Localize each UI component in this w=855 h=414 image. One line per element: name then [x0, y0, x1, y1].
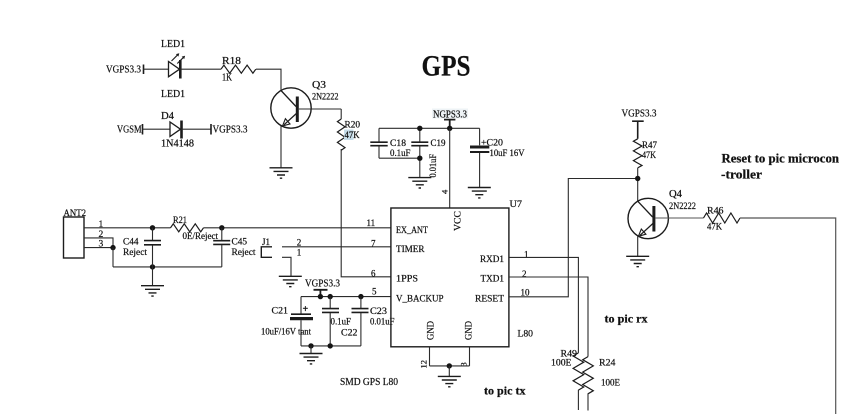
wire VGPS3.3 to LED1 anode — [144, 68, 169, 70]
capacitor C18 — [370, 142, 387, 146]
svg-text:to pic tx: to pic tx — [484, 384, 526, 398]
svg-text:C45: C45 — [232, 238, 248, 248]
junction C44 — [150, 225, 155, 230]
wire GND join — [430, 365, 470, 367]
IC U7 box — [391, 208, 509, 347]
resistor R24 — [583, 357, 594, 394]
junction dots top rail — [417, 126, 422, 131]
svg-text:11: 11 — [367, 218, 376, 228]
ground (C21 rail) — [300, 354, 323, 364]
power T-bar NGPS3.3 — [444, 120, 455, 129]
capacitor C44 — [152, 228, 154, 240]
svg-text:10uF/16V tant: 10uF/16V tant — [261, 328, 311, 338]
ground (C18/C19) — [408, 178, 431, 188]
transistor Q3 2N2222 — [271, 88, 341, 128]
wire VCC pin 4 — [449, 128, 451, 208]
svg-text:+C20: +C20 — [481, 139, 503, 149]
svg-text:C21: C21 — [272, 307, 289, 317]
wire C18-C19 bottom — [379, 157, 420, 159]
svg-text:C44: C44 — [123, 238, 139, 248]
wire R46 to right edge — [740, 218, 836, 414]
wire VGSM to D4 — [143, 128, 171, 130]
svg-text:Reject: Reject — [232, 248, 256, 258]
capacitor C19 — [411, 142, 428, 146]
ground (ANT2 rail) — [141, 286, 164, 296]
resistor R21 — [171, 224, 204, 232]
wire R49 down — [577, 390, 579, 410]
resistor R46 — [704, 213, 740, 223]
svg-text:R21: R21 — [173, 216, 187, 226]
wire Q4 collector to R46 — [655, 217, 703, 219]
svg-text:RESET: RESET — [475, 295, 504, 305]
svg-text:VGPS3.3: VGPS3.3 — [106, 65, 141, 76]
wire D4 to VGPS3.3 port — [182, 128, 212, 130]
svg-text:LED1: LED1 — [161, 39, 185, 50]
svg-text:1: 1 — [297, 248, 302, 258]
svg-text:5: 5 — [372, 287, 377, 297]
wire RESET up to Q4 base junction — [509, 179, 638, 297]
svg-text:47K: 47K — [642, 151, 656, 161]
ground (U7 GND) — [438, 376, 461, 386]
svg-text:GPS: GPS — [422, 50, 471, 83]
svg-text:R46: R46 — [707, 207, 724, 217]
capacitor C45 — [221, 228, 223, 240]
svg-text:0E/Reject: 0E/Reject — [183, 232, 219, 242]
svg-text:R47: R47 — [642, 141, 657, 151]
svg-text:10: 10 — [521, 288, 531, 298]
svg-text:VGPS3.3: VGPS3.3 — [305, 279, 340, 290]
svg-text:R18: R18 — [222, 56, 241, 67]
svg-text:6: 6 — [371, 269, 376, 279]
svg-text:D4: D4 — [161, 111, 174, 122]
svg-text:LED1: LED1 — [161, 89, 185, 100]
wire RXD1 to R49 — [509, 257, 579, 353]
wire ANT2 pin3 — [84, 247, 113, 249]
transistor Q4 2N2222 — [628, 198, 668, 238]
svg-text:2N2222: 2N2222 — [669, 202, 696, 212]
svg-text:VCC: VCC — [454, 211, 464, 231]
power T-bar R47 — [632, 121, 644, 139]
LED LED1 — [169, 55, 184, 78]
wire down to bottom rail — [112, 248, 114, 267]
svg-text:2N2222: 2N2222 — [312, 93, 339, 103]
svg-text:VGPS3.3: VGPS3.3 — [213, 125, 248, 136]
svg-text:C22: C22 — [341, 329, 358, 339]
svg-text:1N4148: 1N4148 — [161, 139, 194, 150]
wire R24 down — [587, 393, 589, 410]
junction C45 — [219, 225, 224, 230]
resistor R49 — [573, 353, 584, 390]
wire GND pin 3 — [469, 347, 471, 366]
capacitor C23 — [360, 297, 362, 308]
svg-text:TXD1: TXD1 — [481, 275, 505, 285]
LED arrowheads — [176, 53, 179, 56]
wire V_BACKUP rail — [301, 296, 391, 298]
wire R47 to Q4 base — [637, 168, 639, 201]
svg-text:0.01uF: 0.01uF — [429, 154, 439, 178]
wire Q4 emitter to ground — [637, 236, 639, 256]
junction pin2/pin3 — [110, 245, 115, 250]
junction R47/RESET — [635, 176, 640, 181]
svg-text:1: 1 — [99, 220, 104, 230]
svg-text:2: 2 — [297, 237, 302, 247]
wire R20 down to 1PPS — [341, 149, 391, 277]
svg-text:EX_ANT: EX_ANT — [396, 226, 428, 236]
svg-text:TIMER: TIMER — [396, 245, 425, 255]
junction bottom rail — [150, 264, 155, 269]
resistor R47 — [633, 139, 642, 168]
svg-text:7: 7 — [371, 238, 376, 248]
svg-text:VGSM: VGSM — [117, 125, 142, 136]
svg-text:100E: 100E — [601, 379, 620, 389]
resistor R18 — [221, 65, 256, 73]
svg-text:NGPS3.3: NGPS3.3 — [433, 109, 467, 120]
svg-text:C19: C19 — [431, 139, 446, 149]
port bar VGSM — [142, 124, 144, 135]
capacitor C22 — [329, 297, 331, 308]
node NGPS3.3 power — [432, 109, 468, 119]
svg-text:GND: GND — [427, 321, 437, 340]
svg-text:Q4: Q4 — [669, 189, 682, 200]
svg-text:U7: U7 — [510, 200, 523, 210]
ground (Q3 emitter) — [270, 168, 293, 178]
svg-text:+: + — [303, 304, 309, 315]
svg-text:Q3: Q3 — [312, 80, 326, 91]
wire J1 pin1 to ground — [282, 257, 291, 276]
wire bottom rail (C21-C23) — [301, 345, 361, 347]
wire Q3 collector down to R20 — [340, 109, 342, 119]
svg-text:Reset to pic microcon: Reset to pic microcon — [722, 152, 840, 166]
svg-text:to pic rx: to pic rx — [605, 312, 648, 326]
svg-text:Reject: Reject — [123, 248, 147, 258]
resistor R20 — [337, 119, 345, 150]
wire GND pin 12 — [429, 347, 431, 366]
ground (C20) — [468, 188, 491, 198]
port bar VGPS3.3 (right of D4) — [210, 124, 212, 135]
svg-text:0.1uF: 0.1uF — [390, 149, 411, 159]
svg-text:0.1uF: 0.1uF — [331, 318, 352, 328]
wire ANT2 pin1 to R21 — [84, 227, 171, 229]
wire top rail — [379, 127, 480, 129]
capacitor C20 — [479, 128, 481, 145]
power T-bar — [314, 290, 328, 297]
svg-text:RXD1: RXD1 — [480, 255, 504, 265]
svg-text:1K: 1K — [222, 73, 233, 84]
svg-text:R24: R24 — [599, 359, 616, 369]
svg-text:V_BACKUP: V_BACKUP — [396, 295, 444, 305]
wire J1 pin2 to TIMER — [282, 246, 391, 248]
svg-text:VGPS3.3: VGPS3.3 — [622, 108, 657, 119]
svg-text:47K: 47K — [707, 223, 722, 233]
capacitor C21 (tant) — [300, 297, 302, 314]
port bar VGPS3.3 — [143, 65, 145, 75]
svg-text:R20: R20 — [345, 121, 361, 131]
svg-text:SMD GPS L80: SMD GPS L80 — [340, 377, 398, 388]
svg-text:12: 12 — [419, 360, 429, 369]
wire ANT2 pin2 — [84, 238, 113, 248]
wire R21 to EX_ANT — [204, 227, 391, 229]
wire TXD1 to R24 — [509, 277, 588, 357]
svg-text:1PPS: 1PPS — [396, 275, 418, 285]
ground (J1) — [279, 276, 302, 286]
wire LED1 cathode to R18 — [180, 68, 221, 70]
wire rail to ground — [310, 346, 312, 353]
wire Q3 emitter to ground — [280, 126, 282, 168]
ground (Q4) — [626, 256, 649, 266]
svg-text:47K: 47K — [345, 131, 360, 141]
wire bottom rail — [113, 266, 222, 268]
svg-text:10uF 16V: 10uF 16V — [490, 149, 525, 159]
svg-text:-troller: -troller — [721, 168, 762, 182]
svg-text:C18: C18 — [390, 139, 406, 149]
wire rail to ground — [152, 267, 154, 286]
svg-text:GND: GND — [465, 321, 475, 340]
wire to ground — [448, 366, 450, 376]
svg-text:L80: L80 — [518, 330, 534, 340]
wire R18 to Q3 base — [256, 69, 281, 90]
svg-text:100E: 100E — [551, 359, 572, 369]
wire to ground — [419, 158, 421, 177]
svg-text:C23: C23 — [370, 307, 387, 317]
